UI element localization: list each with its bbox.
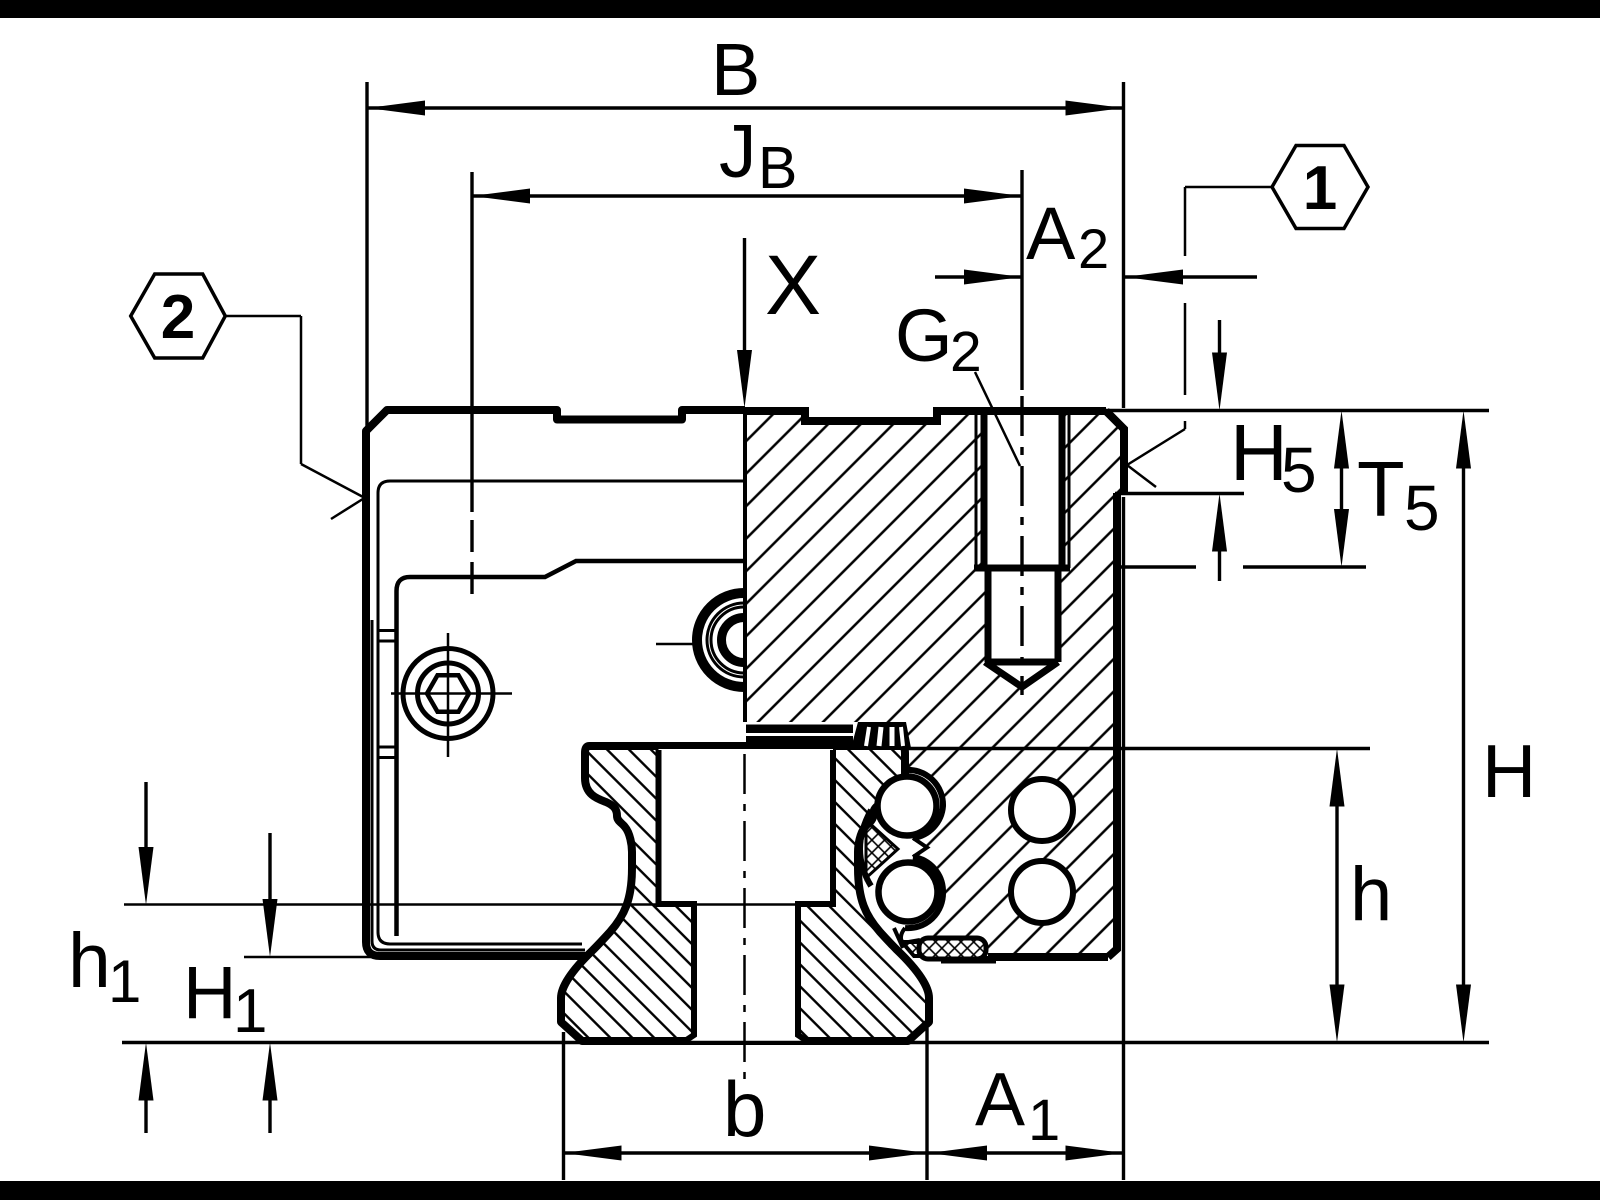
clip ticks lower (378, 746, 397, 749)
top surface extension line right (1106, 409, 1489, 412)
dimension H5 (1218, 320, 1221, 354)
ball bore upper right (1011, 779, 1073, 841)
saddle section boundary at centerline (743, 411, 747, 722)
B arrow right (1066, 101, 1124, 116)
svg-text:1: 1 (1028, 1088, 1060, 1153)
svg-text:5: 5 (1281, 434, 1317, 506)
A2 arrow right (1125, 270, 1183, 285)
end plate inner outline B (397, 561, 745, 936)
dimension h (1335, 804, 1338, 987)
top seal strip bars (746, 725, 853, 734)
rail top reference line (905, 747, 1370, 750)
svg-text:2: 2 (1078, 217, 1109, 280)
svg-text:A: A (975, 1057, 1025, 1141)
rail centerline (743, 754, 746, 1080)
dimension JB line (472, 194, 1022, 197)
svg-text:H: H (1482, 729, 1536, 813)
dimension b (562, 1032, 565, 1180)
dimension H1 (268, 833, 271, 900)
H1 top reference line (244, 956, 374, 959)
B extension left (365, 82, 368, 431)
svg-text:1: 1 (233, 977, 267, 1046)
svg-text:5: 5 (1404, 472, 1440, 544)
hexagon 2 leader (225, 315, 301, 318)
dimension H (1462, 466, 1465, 987)
ball bore lower right (1011, 861, 1073, 923)
rail counterbore hole (659, 749, 834, 904)
G2 pilot bottom and drill cone (985, 662, 1058, 687)
G2 tapped hole thread major lines (975, 413, 978, 568)
dimension h1 (144, 782, 147, 848)
svg-text:H: H (183, 951, 236, 1034)
callout hexagon 1 (1272, 146, 1368, 229)
svg-text:B: B (711, 28, 760, 111)
JB arrow right (964, 189, 1022, 204)
bottom seal lip bar (941, 956, 996, 964)
JB extension left (470, 172, 473, 512)
JB arrow left (472, 189, 530, 204)
saddle ball race (905, 752, 943, 838)
end plate inner outline A (378, 481, 744, 944)
saddle top right chamfer (1106, 411, 1124, 493)
h1 top reference line (124, 903, 833, 906)
clip ticks upper (378, 629, 397, 632)
top seal lip (851, 722, 911, 748)
saddle right face (1108, 493, 1117, 957)
hexagon 1 leader (1185, 186, 1272, 189)
G2 pilot hole walls (985, 568, 992, 662)
rail through hole (685, 904, 807, 1041)
carriage saddle sectioned half (hatched) (745, 411, 1124, 957)
rail counterbore bottom face (656, 901, 698, 907)
svg-text:A: A (1026, 192, 1076, 275)
guide rail cross-section (hatched body with mounting hole) (561, 746, 929, 1041)
svg-text:G: G (895, 294, 953, 377)
callout hexagon 2 (131, 274, 226, 358)
ball upper left (878, 777, 937, 836)
ball lower left (879, 863, 938, 922)
ball retainer strip (860, 810, 871, 886)
B arrow left (367, 101, 425, 116)
saddle bottom edge (988, 953, 1108, 961)
svg-text:h: h (68, 918, 111, 1004)
bottom black bar (0, 1181, 1600, 1200)
dimension A1 (928, 1151, 1124, 1154)
G2 thread end line (974, 565, 1070, 572)
G2 hole centerline (1020, 170, 1023, 390)
end plate outer profile (366, 410, 745, 956)
bottom seal wedge (902, 942, 936, 956)
X centerline arrow (743, 238, 746, 352)
G2 leader (975, 372, 1020, 466)
B extension right (1122, 82, 1125, 408)
dimension T5 (1340, 466, 1343, 511)
svg-text:H: H (1230, 408, 1288, 497)
svg-text:1: 1 (1303, 154, 1337, 223)
rail outline (561, 746, 929, 1041)
retainer cross-hatched wedge (866, 820, 898, 878)
top black bar (0, 0, 1600, 18)
svg-text:B: B (758, 135, 797, 201)
bottom seal capsule (919, 938, 986, 959)
dimension A2 (935, 275, 1022, 278)
svg-text:h: h (1350, 852, 1392, 937)
svg-text:X: X (765, 238, 821, 332)
svg-text:T: T (1357, 445, 1405, 533)
saddle top edge (745, 411, 1106, 421)
H5 step reference line (1115, 492, 1244, 495)
A2 arrow left (964, 270, 1022, 285)
end plate inner edge line (372, 620, 585, 950)
svg-text:J: J (719, 109, 757, 193)
saddle lower lip edge (894, 928, 903, 948)
dimension B line (367, 106, 1124, 109)
T5 depth reference line (1116, 565, 1196, 568)
G2 tapped hole minor walls (981, 411, 988, 568)
lubrication nipple bore half-arcs (656, 593, 744, 687)
svg-text:1: 1 (108, 948, 141, 1015)
hex socket screw head (391, 633, 512, 757)
ground baseline (122, 1041, 1489, 1044)
svg-text:2: 2 (161, 283, 195, 352)
